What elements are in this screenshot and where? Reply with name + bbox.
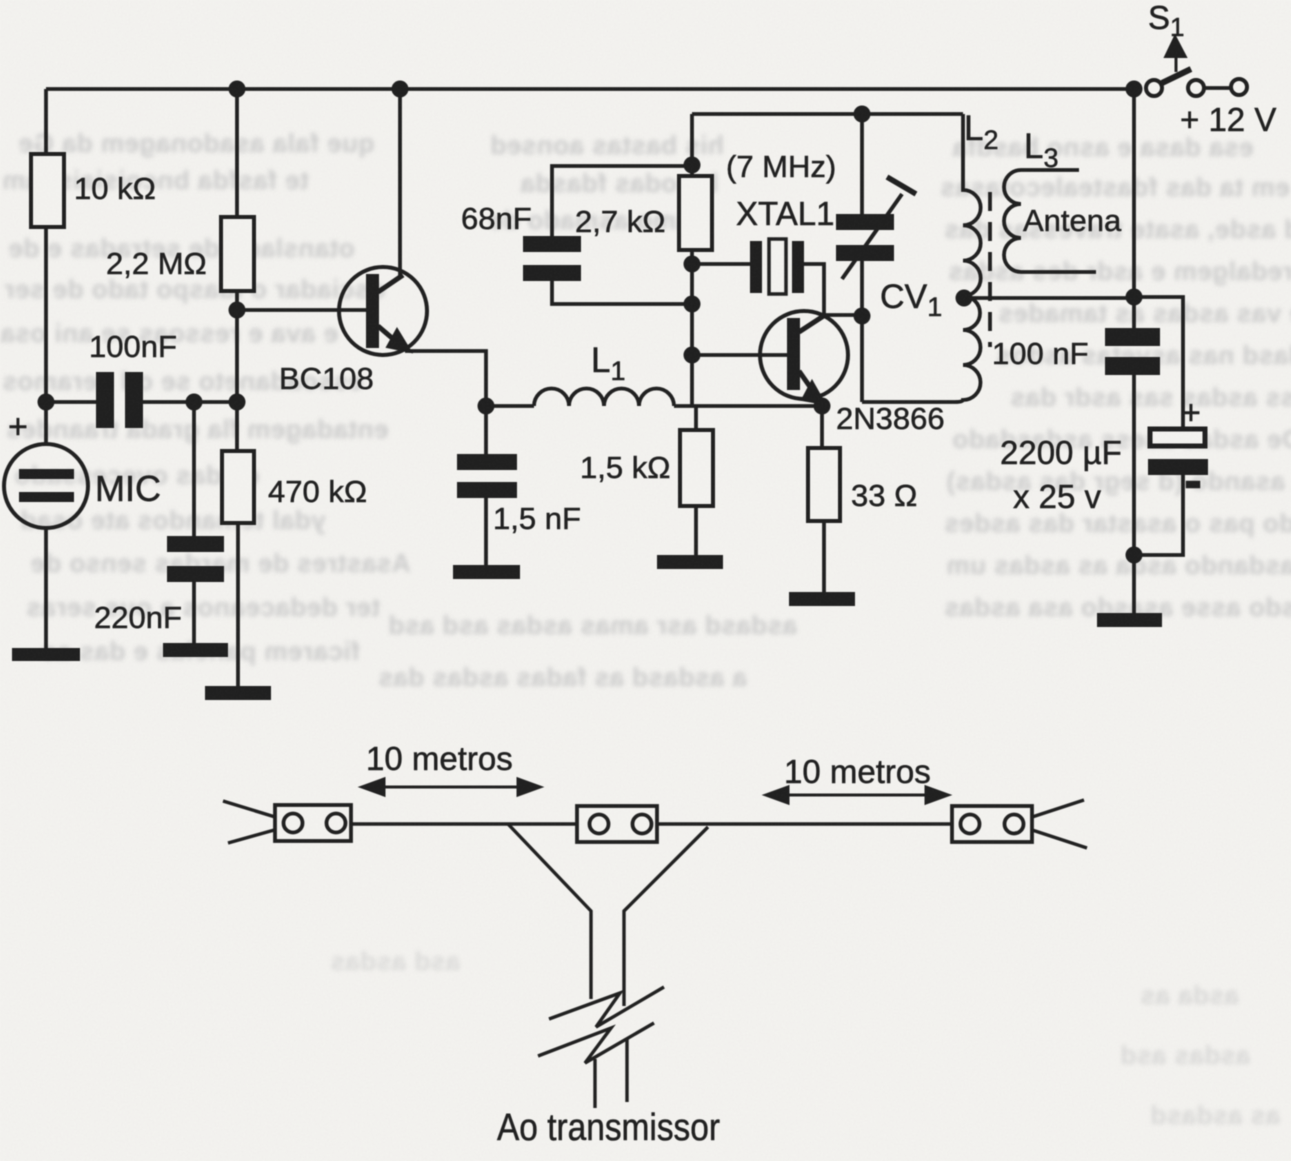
wire BC108 collector bbox=[398, 89, 402, 278]
wire 2.2M branch vertical bbox=[235, 89, 239, 451]
wire feeder right lower bbox=[625, 1039, 628, 1102]
node M collector/CV1 bbox=[854, 308, 871, 325]
capacitor 1,5nF plates bbox=[457, 454, 517, 498]
node F 470k junction bbox=[229, 394, 246, 411]
wire 33R branch bbox=[822, 406, 824, 594]
wire left vertical (10k branch) bbox=[44, 89, 48, 444]
node D MIC plus bbox=[38, 394, 55, 411]
node L Q2 base bbox=[684, 347, 701, 364]
resistor 2,2 MOhm bbox=[221, 217, 254, 291]
wire L1 to Q2 emitter bbox=[674, 404, 822, 408]
node K 68nF bottom bbox=[684, 296, 701, 313]
node E 220nF junction bbox=[186, 394, 203, 411]
wire 68nF bottom lead bbox=[552, 281, 692, 304]
capacitor 2200uF electrolytic bbox=[1150, 429, 1205, 446]
node B rail/BC108 collector bbox=[392, 81, 409, 98]
label minus 2200uF bbox=[1186, 481, 1200, 488]
wire L2 tap to right rail bbox=[965, 296, 1134, 300]
node G divider/base bbox=[229, 302, 246, 319]
ground (MIC) bbox=[12, 648, 80, 661]
wire antenna left rope lower bbox=[228, 827, 285, 843]
crystal XTAL1 bbox=[750, 239, 804, 294]
node R right rail ground join bbox=[1126, 547, 1143, 564]
node I 2.7k top bbox=[684, 157, 701, 174]
wire xtal right lead down to collector bbox=[801, 264, 862, 315]
resistor 470 kOhm bbox=[222, 451, 254, 523]
wire 68nF top lead bbox=[552, 166, 692, 236]
wire antenna span right bbox=[657, 822, 952, 825]
wire feeder right diagonal bbox=[624, 827, 708, 1006]
capacitor 68nF plates bbox=[523, 236, 581, 281]
wire BC108 emitter to node bbox=[405, 351, 486, 406]
wire 100nF right lead bbox=[143, 400, 237, 404]
wire right rail down bbox=[1132, 89, 1136, 615]
capacitor 100nF input plates bbox=[96, 372, 143, 428]
wire MIC to ground bbox=[44, 528, 48, 650]
wire feeder left diagonal bbox=[508, 824, 591, 999]
insulator left bbox=[275, 805, 351, 841]
transistor Q1 BC108 bbox=[339, 267, 427, 355]
wire 1.5nF branch bbox=[484, 406, 488, 567]
capacitor 220nF plates bbox=[167, 536, 224, 582]
wire antenna right rope upper bbox=[1023, 800, 1084, 820]
wire 1.5k branch bbox=[694, 406, 698, 557]
coupling dashed line L2-L3 bbox=[988, 192, 992, 347]
inductor L1 bbox=[534, 389, 674, 407]
switch S1 bbox=[1146, 36, 1247, 96]
resistor 2,7 kOhm bbox=[679, 176, 712, 250]
inductor L2 with tap bbox=[955, 114, 981, 402]
dimension arrow left bbox=[362, 779, 540, 795]
wire 2200u top lead bbox=[1134, 297, 1183, 428]
wire 2.7k vertical line bbox=[690, 114, 694, 406]
paper speckle (decorative) bbox=[0, 0, 1, 1]
node N top of CV1 bbox=[854, 106, 871, 123]
ground (33R) bbox=[789, 592, 855, 606]
ground (right rail) bbox=[1097, 613, 1162, 627]
wire CV1 bottom to L2 bottom bbox=[862, 261, 955, 402]
wire Q2 base lead bbox=[692, 353, 787, 357]
inductor L3 antenna coil bbox=[1004, 170, 1096, 272]
wire 220nF branch bbox=[192, 402, 196, 645]
resistor 33 Ohm bbox=[808, 448, 840, 521]
microphone MIC bbox=[4, 444, 88, 528]
CV1 trimmer arrow bbox=[842, 194, 902, 279]
wire 470k to ground bbox=[236, 523, 240, 688]
wire 2200u bottom lead bbox=[1134, 475, 1183, 555]
resistor 10 kOhm bbox=[31, 154, 64, 227]
node J xtal left bbox=[684, 256, 701, 273]
capacitor 100nF output plates bbox=[1105, 328, 1160, 375]
break mark upper bbox=[549, 987, 664, 1027]
bleed-through background text (decorative) bbox=[18, 128, 374, 159]
wire antenna right rope lower bbox=[1023, 827, 1087, 848]
wire antenna left rope upper bbox=[223, 801, 285, 820]
ground (220nF) bbox=[163, 643, 228, 657]
wire feeder left lower bbox=[593, 1059, 596, 1108]
node A rail/2.2M bbox=[229, 81, 246, 98]
dimension arrow right bbox=[766, 787, 948, 803]
wire base BC108 from divider bbox=[237, 308, 366, 312]
ground (470k) bbox=[205, 686, 271, 700]
insulator center bbox=[577, 806, 657, 842]
wire 100nF left lead bbox=[46, 400, 96, 404]
node P L2 tap bbox=[956, 290, 973, 307]
switch S1 link wire bbox=[1204, 86, 1231, 90]
wire CV1 top lead bbox=[860, 114, 864, 214]
node O Q2 emitter bbox=[814, 398, 831, 415]
transistor Q2 2N3866 bbox=[760, 311, 848, 404]
wire xtal left lead bbox=[692, 262, 752, 266]
node H emitter/L1/1.5nF bbox=[478, 398, 495, 415]
resistor 1,5 kOhm bbox=[680, 430, 713, 506]
wire node to L1 bbox=[486, 404, 534, 408]
insulator right bbox=[952, 806, 1032, 842]
node C rail/S1 bbox=[1126, 81, 1143, 98]
ground (1.5k) bbox=[657, 555, 723, 569]
wire antenna span left bbox=[351, 822, 577, 825]
capacitor CV1 plates bbox=[836, 214, 894, 261]
ground (1.5nF) bbox=[453, 565, 520, 579]
wire top +12V rail bbox=[46, 87, 1133, 91]
break mark lower bbox=[538, 1023, 654, 1063]
node Q right rail tap bbox=[1126, 289, 1143, 306]
wire upper horizontal (to L2 top) bbox=[692, 112, 963, 116]
